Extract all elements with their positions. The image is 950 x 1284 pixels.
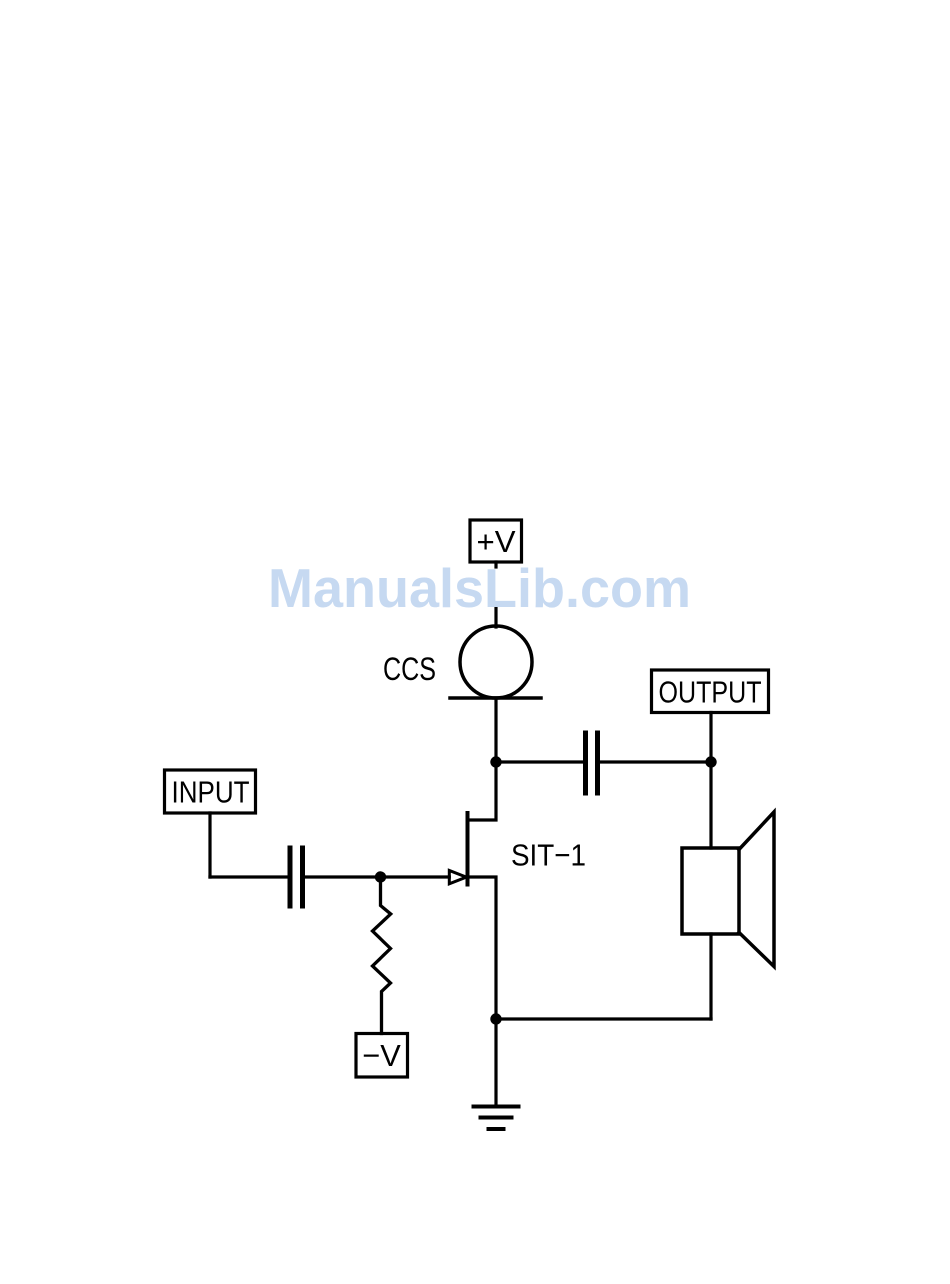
node C: gate node dot xyxy=(375,871,386,882)
wire drain node to output capacitor xyxy=(496,760,583,763)
capacitor C2 (output) right plate xyxy=(595,733,600,793)
wire OUTPUT box to output node xyxy=(709,713,712,763)
capacitor C1 (input) left plate xyxy=(288,848,293,906)
+V supply box xyxy=(470,520,522,562)
gate arrow xyxy=(449,871,466,884)
INPUT box xyxy=(165,770,256,813)
svg-text:ManualsLib.com: ManualsLib.com xyxy=(268,557,691,619)
svg-text:+V: +V xyxy=(477,524,516,559)
-V supply box xyxy=(356,1034,408,1078)
ground symbol xyxy=(474,1107,519,1130)
wire capacitor to gate node xyxy=(304,875,449,878)
svg-text:SIT−1: SIT−1 xyxy=(511,838,586,873)
speaker horn xyxy=(739,812,774,967)
transistor drain lead xyxy=(468,762,497,820)
resistor R1 xyxy=(373,877,391,1034)
svg-text:−V: −V xyxy=(362,1038,401,1073)
transistor source lead xyxy=(468,877,497,1019)
node A: drain node dot xyxy=(490,756,501,767)
wire capacitor to output node xyxy=(599,760,711,763)
capacitor C1 (input) right plate xyxy=(300,848,305,906)
capacitor C2 (output) left plate xyxy=(583,733,588,793)
OUTPUT box xyxy=(652,670,769,713)
CCS bottom bar xyxy=(450,696,541,700)
wire CCS to drain node xyxy=(494,698,497,762)
current source CCS circle xyxy=(460,626,532,698)
speaker body xyxy=(682,848,739,934)
bottom rail wire xyxy=(496,1017,711,1020)
wire INPUT box down xyxy=(208,813,211,877)
wire source node to ground xyxy=(494,1019,497,1106)
wire output node to speaker xyxy=(709,762,712,848)
wire INPUT to input capacitor xyxy=(210,875,287,878)
wire speaker to bottom rail xyxy=(709,934,712,1019)
transistor Q1 SIT-1 gate bar xyxy=(466,813,470,885)
node B: output node dot xyxy=(705,756,716,767)
svg-text:INPUT: INPUT xyxy=(172,775,250,810)
wire +V box to CCS circle (lower part) xyxy=(494,607,497,628)
node D: source node dot xyxy=(490,1013,501,1024)
wire +V box to CCS circle (upper stub) xyxy=(494,562,497,567)
svg-text:CCS: CCS xyxy=(383,651,436,687)
svg-text:OUTPUT: OUTPUT xyxy=(659,675,762,710)
